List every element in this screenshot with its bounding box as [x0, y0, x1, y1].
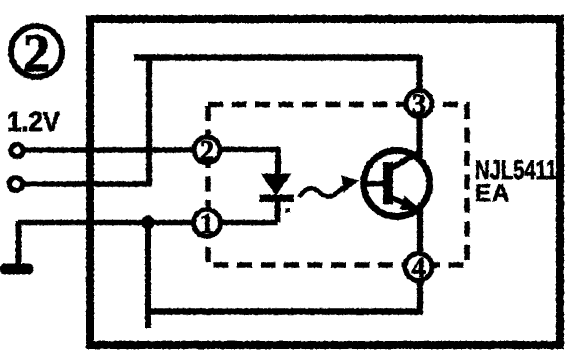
pin 4 circle	[405, 254, 432, 281]
ground symbol	[0, 264, 34, 275]
wire ground to pin 1	[19, 220, 194, 225]
wire pin 4 down	[417, 282, 423, 315]
transistor emitter stroke	[389, 197, 412, 207]
svg-text:3: 3	[412, 90, 426, 121]
wire pin 2 to LED anode	[221, 147, 278, 152]
wire transistor emitter to pin 4	[417, 207, 423, 253]
transistor emitter arrowhead	[400, 196, 424, 213]
terminal lower	[9, 177, 22, 190]
svg-text:4: 4	[412, 253, 426, 284]
wire bottom horizontal (emitter return)	[149, 308, 423, 315]
svg-text:1.2V: 1.2V	[7, 106, 61, 137]
wire LED anode drop	[275, 147, 281, 175]
wire LED cathode drop	[275, 200, 281, 223]
svg-text:1: 1	[200, 209, 214, 240]
enclosure box (control unit outline)	[90, 19, 560, 345]
wire pin 3 to transistor collector	[416, 119, 422, 159]
transistor base lead	[362, 181, 384, 187]
optocoupler package outline (dashed) NJL5411	[208, 105, 467, 266]
transistor collector stroke	[389, 151, 422, 170]
pin 2 circle	[194, 137, 220, 163]
LED D (optocoupler emitter diode)	[260, 174, 295, 213]
phototransistor Q (in optocoupler)	[362, 151, 430, 217]
wire ground vertical	[16, 221, 22, 265]
wire pin 1 to LED cathode	[221, 220, 278, 225]
transistor circle	[364, 151, 430, 217]
wire upper terminal to pin 2	[25, 147, 193, 152]
terminal upper (1.2V supply)	[11, 144, 23, 156]
wire top horizontal to collector side	[134, 54, 420, 61]
svg-text:EA: EA	[475, 180, 510, 207]
junction node (pin1/ground/bottom bus)	[141, 216, 155, 230]
pin 3 circle	[406, 91, 432, 117]
svg-text:2: 2	[200, 136, 214, 167]
transistor base bar	[383, 162, 393, 205]
wire junction drop (pin 1 node down to bottom wire)	[145, 223, 151, 329]
svg-text:2: 2	[23, 23, 50, 83]
wire vertical bus (lower terminal up to top wire)	[146, 55, 152, 187]
light coupling arrowhead	[342, 176, 360, 193]
pin 1 circle	[194, 210, 221, 237]
figure number circle 2	[11, 26, 62, 77]
wire top down to pin 3	[416, 55, 422, 89]
wire lower terminal to vertical bus	[24, 181, 151, 186]
light coupling arrow (squiggle)	[299, 188, 344, 198]
